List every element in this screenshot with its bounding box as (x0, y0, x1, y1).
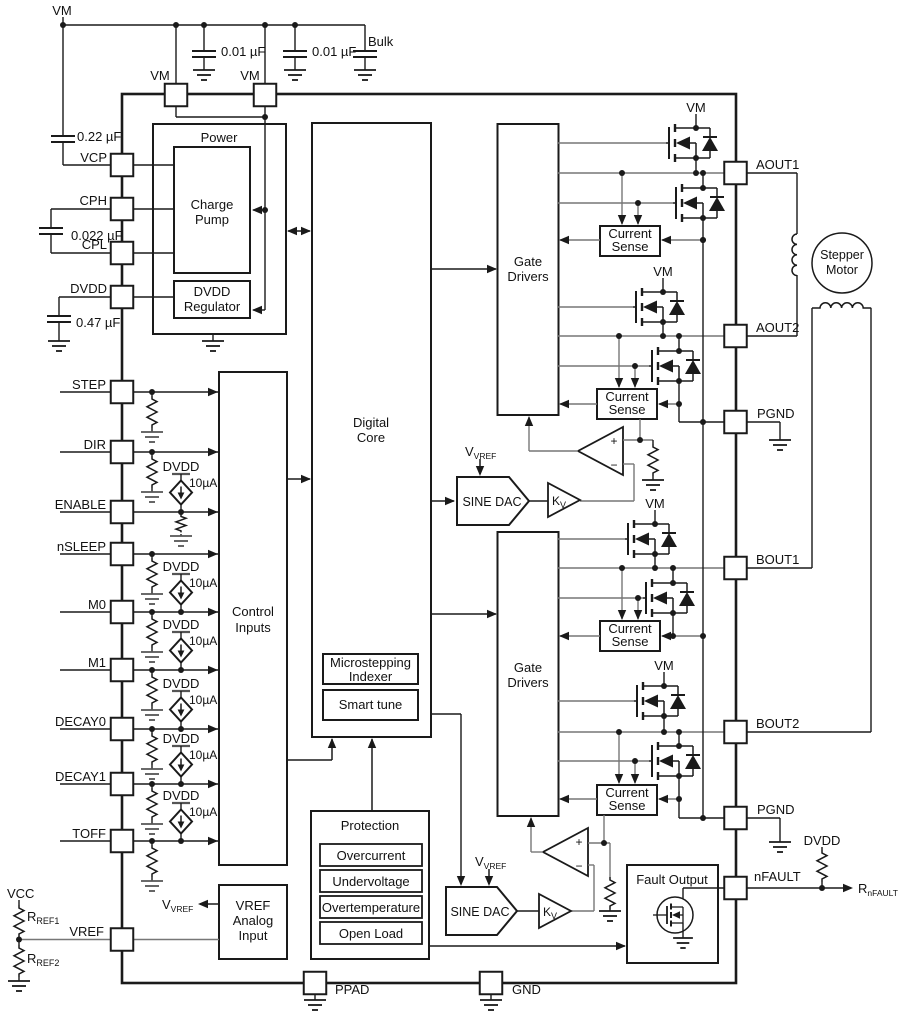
pin STEP (111, 381, 134, 404)
svg-text:Motor: Motor (826, 263, 858, 277)
junction divider tap (16, 937, 22, 943)
junction sense at low-side source B1 (670, 633, 676, 639)
svg-text:−: − (575, 859, 582, 873)
wire output sample down to current sense A1 (621, 173, 623, 224)
wire gate line high-side B2 (558, 700, 634, 702)
wire output net B2 (558, 731, 724, 733)
wire VCC stub (18, 900, 20, 905)
pin ENABLE (111, 501, 134, 524)
wire TOFF to Control Inputs (133, 840, 218, 842)
capacitor 0.022 uF (39, 228, 63, 234)
ground below GND pin (480, 1000, 502, 1010)
block Current Sense A1 (600, 226, 660, 256)
wire CPL to Charge Pump (133, 252, 174, 254)
svg-text:VREF: VREF (236, 898, 271, 913)
block Open Load (320, 922, 422, 944)
svg-text:Digital: Digital (353, 415, 389, 430)
stepper motor circle (812, 233, 872, 293)
svg-text:SINE DAC: SINE DAC (462, 495, 521, 509)
wire current sense B low to plus node (603, 815, 605, 843)
block DVDD Regulator (174, 281, 250, 318)
svg-text:SINE DAC: SINE DAC (450, 905, 509, 919)
svg-text:PGND: PGND (757, 406, 795, 421)
junction high-side at output A2 (660, 333, 666, 339)
pin DECAY1 (111, 773, 134, 796)
svg-text:GND: GND (512, 982, 541, 997)
svg-text:PGND: PGND (757, 802, 795, 817)
wire PGND sense column (702, 240, 704, 818)
current source 10uA into M0 (180, 574, 182, 581)
wire DECAY0 external stub (60, 728, 111, 730)
block Overtemperature (320, 896, 422, 918)
svg-text:0.22 µF: 0.22 µF (77, 129, 121, 144)
wire current sense output to gate drivers B2 (560, 798, 597, 800)
wire high-side source to output B2 (663, 716, 665, 732)
junction output sample B1 (619, 565, 625, 571)
pulldown resistor at DIR (151, 452, 153, 456)
device boundary (chip outline) (122, 94, 736, 983)
current source 10uA into TOFF (180, 803, 182, 810)
pin VCP (111, 154, 134, 177)
amplifier KV A (548, 483, 580, 517)
svg-text:Core: Core (357, 430, 385, 445)
wire high-side source to output B1 (654, 554, 656, 568)
wire low-side drain to output A2 (678, 336, 680, 351)
wire 0.47uF to ground (58, 322, 60, 341)
wire VM pin2 internal vertical (264, 106, 266, 310)
block Protection (311, 811, 429, 959)
wire output net A1 (558, 172, 724, 174)
wire GND pin to ground (490, 994, 492, 1000)
svg-text:CPH: CPH (80, 193, 107, 208)
capacitor 0.01 uF (C2) (283, 51, 307, 57)
wire DVDD left to cap (59, 296, 111, 298)
current source 10uA into DECAY1 (180, 746, 182, 753)
svg-text:10µA: 10µA (189, 805, 217, 819)
block Smart tune (323, 690, 418, 720)
wire CPL left (50, 234, 52, 253)
wire comparator B output to gate drivers (531, 851, 543, 853)
pin M0 (111, 601, 134, 624)
svg-text:Control: Control (232, 604, 274, 619)
svg-text:Sense: Sense (609, 402, 646, 417)
junction high-side at output B2 (661, 729, 667, 735)
svg-text:DVDD: DVDD (163, 459, 200, 474)
block Current Sense B1 (600, 621, 660, 651)
pin PPAD (304, 972, 327, 995)
svg-text:0.47 µF: 0.47 µF (76, 315, 120, 330)
capacitor 0.01 uF (C1) (192, 51, 216, 57)
pin VM 2 (254, 84, 277, 107)
wire DECAY1 external stub (60, 783, 111, 785)
svg-text:BOUT2: BOUT2 (756, 716, 799, 731)
block Current Sense A2 (597, 389, 657, 419)
ground below bulk cap (354, 70, 376, 80)
svg-text:10µA: 10µA (189, 576, 217, 590)
svg-text:VM: VM (52, 3, 72, 18)
sense resistor B (609, 843, 611, 877)
junction DECAY0 at current source (178, 726, 184, 732)
DVDD rail bar above ENABLE current source (172, 473, 190, 475)
DVDD rail bar above TOFF current source (172, 802, 190, 804)
ground at PGND A (769, 440, 791, 450)
pin BOUT1 (724, 557, 747, 580)
ground below TOFF pulldown (141, 881, 163, 891)
junction VM rail at C1 (201, 22, 207, 28)
svg-text:M1: M1 (88, 655, 106, 670)
svg-text:PPAD: PPAD (335, 982, 369, 997)
DVDD rail bar above DECAY1 current source (172, 745, 190, 747)
transistor low-side FET B2 (649, 760, 652, 762)
svg-text:Protection: Protection (341, 818, 400, 833)
comparator B (543, 828, 588, 876)
transistor fault output FET (653, 914, 667, 916)
block Undervoltage (320, 870, 422, 892)
junction sense at low-side source A1 (700, 237, 706, 243)
svg-text:Sense: Sense (612, 634, 649, 649)
resistor RREF2 (14, 945, 24, 977)
pulldown resistor at M1 (151, 670, 153, 674)
junction sense column at PGND B (700, 815, 706, 821)
wire CPH left (51, 208, 111, 210)
junction M1 at current source (178, 667, 184, 673)
current source 10uA into M1 (180, 632, 182, 639)
pin M1 (111, 659, 134, 682)
wire VREF pin to block (133, 939, 219, 941)
SINE DAC A (457, 477, 529, 525)
svg-text:M0: M0 (88, 597, 106, 612)
junction nSLEEP at pulldown (149, 551, 155, 557)
pin PGND A (724, 411, 747, 434)
wire DECAY0 to Control Inputs (133, 728, 218, 730)
svg-text:nFAULT: nFAULT (754, 869, 801, 884)
block Gate Drivers B (498, 532, 559, 816)
junction comparator B plus node (601, 840, 607, 846)
block Overcurrent (320, 844, 422, 866)
junction sense at low-side source B2 (676, 796, 682, 802)
wire gate line low-side A2 (558, 365, 649, 367)
transistor high-side FET B2 (634, 700, 637, 702)
pin DECAY0 (111, 718, 134, 741)
svg-text:DVDD: DVDD (70, 281, 107, 296)
arrow Power to Digital Core (bidir) (288, 230, 310, 232)
wire gate line low-side B2 (558, 760, 649, 762)
junction output sample A2 (616, 333, 622, 339)
wire DIR to Control Inputs (133, 451, 218, 453)
DVDD rail bar above M1 current source (172, 631, 190, 633)
wire VVREF output arrow (200, 903, 219, 905)
svg-text:Charge: Charge (191, 197, 234, 212)
block Power (153, 124, 286, 334)
wire VM stub A1 (695, 114, 697, 128)
svg-text:nSLEEP: nSLEEP (57, 539, 106, 554)
wire VM rail to cap C2 (294, 25, 296, 51)
wire VM top rail (63, 24, 365, 26)
wire AOUT1 to winding A (747, 172, 797, 174)
svg-text:Stepper: Stepper (820, 248, 864, 262)
pin DVDD (111, 286, 134, 309)
wire M1 to Control Inputs (133, 669, 218, 671)
ground below DECAY1 pulldown (141, 824, 163, 834)
wire gate line high-side B1 (558, 538, 625, 540)
wire PGND A to ground (747, 421, 780, 423)
junction low-side at output A2 (676, 333, 682, 339)
wire divider to VREF pin (18, 937, 20, 945)
pulldown resistor at TOFF (151, 841, 153, 845)
wire ENABLE external stub (60, 511, 111, 513)
pin GND (480, 972, 503, 995)
svg-text:Gate: Gate (514, 660, 542, 675)
svg-text:DVDD: DVDD (163, 559, 200, 574)
wire VVREF into SINE DAC B (488, 869, 490, 884)
transistor low-side FET A2 (649, 365, 652, 367)
wire high-side source to output A2 (662, 322, 664, 336)
junction sense column at PGND A (700, 419, 706, 425)
pulldown resistor at nSLEEP (151, 554, 153, 558)
wire sense line into current sense A2 (659, 403, 679, 405)
wire low-side source down A1 (702, 218, 704, 240)
wire output sample down to current sense B1 (621, 568, 623, 619)
ground below DECAY0 pulldown (141, 769, 163, 779)
wire PPAD to ground (314, 994, 316, 1000)
junction low-side at output B1 (670, 565, 676, 571)
wire C2 to ground (294, 57, 296, 70)
svg-text:0.01 µF: 0.01 µF (312, 44, 356, 59)
pin VM 1 (165, 84, 188, 107)
wire C1 to ground (203, 57, 205, 70)
svg-text:VCC: VCC (7, 886, 34, 901)
block Charge Pump (174, 147, 250, 273)
winding A (phase A coil) (792, 234, 797, 276)
svg-text:Undervoltage: Undervoltage (332, 874, 409, 889)
svg-text:DECAY0: DECAY0 (55, 714, 106, 729)
svg-text:DVDD: DVDD (163, 788, 200, 803)
transistor high-side FET B1 (625, 538, 628, 540)
ground at PGND B (769, 842, 791, 852)
wire bulk cap to ground (364, 57, 366, 70)
block VREF Analog Input (219, 885, 287, 959)
svg-text:Input: Input (239, 928, 268, 943)
svg-text:Analog: Analog (233, 913, 273, 928)
svg-text:Power: Power (201, 130, 239, 145)
wire M1 external stub (60, 669, 111, 671)
wire current sense output to gate drivers A2 (560, 403, 597, 405)
svg-text:ENABLE: ENABLE (55, 497, 107, 512)
pin CPH (111, 198, 134, 221)
pulldown resistor at DECAY1 (151, 784, 153, 788)
svg-text:DECAY1: DECAY1 (55, 769, 106, 784)
wire output net B1 (558, 567, 724, 569)
svg-text:Overtemperature: Overtemperature (322, 900, 420, 915)
svg-text:VM: VM (686, 100, 706, 115)
junction VM internal (262, 114, 268, 120)
svg-text:Drivers: Drivers (507, 675, 549, 690)
junction DIR at pulldown (149, 449, 155, 455)
pin DIR (111, 441, 134, 464)
wire low-side drain to output B1 (672, 568, 674, 583)
svg-text:10µA: 10µA (189, 476, 217, 490)
wire low-side drain to output A1 (702, 173, 704, 188)
svg-text:Gate: Gate (514, 254, 542, 269)
svg-text:STEP: STEP (72, 377, 106, 392)
wire VCP to Charge Pump (133, 164, 174, 166)
junction TOFF at pulldown (149, 838, 155, 844)
svg-text:+: + (610, 434, 617, 448)
junction low-side at output B2 (676, 729, 682, 735)
wire VM stub B2 (663, 672, 665, 686)
wire RREF2 to ground (18, 977, 20, 981)
wire Digital Core to SINE DAC A (431, 500, 454, 502)
wire VM stub B1 (654, 510, 656, 524)
wire VVREF into SINE DAC A (479, 459, 481, 474)
junction VM at charge pump branch (262, 207, 268, 213)
junction high-side at output A1 (693, 170, 699, 176)
junction M0 at pulldown (149, 609, 155, 615)
block Microstepping Indexer (323, 654, 418, 684)
wire VM stub A2 (662, 278, 664, 292)
pulldown resistor at DECAY0 (151, 729, 153, 733)
pin nFAULT (724, 877, 747, 900)
ground below sense resistor B (599, 911, 621, 921)
fault FET circle (657, 897, 693, 933)
ground below RREF2 (8, 981, 30, 991)
wire VM to DVDD Regulator (253, 309, 265, 311)
junction DECAY1 at pulldown (149, 781, 155, 787)
svg-text:Sense: Sense (609, 798, 646, 813)
pin CPL (111, 242, 134, 265)
svg-text:Regulator: Regulator (184, 299, 241, 314)
wire gate sample down to current sense B2 (634, 761, 636, 783)
svg-text:0.01 µF: 0.01 µF (221, 44, 265, 59)
wire winding A to AOUT2 (796, 275, 798, 336)
svg-text:Indexer: Indexer (349, 669, 393, 684)
wire gate line high-side A2 (558, 306, 633, 308)
wire SINE DAC B to KV B (517, 910, 539, 912)
ground below nSLEEP pulldown (141, 594, 163, 604)
svg-text:VREF: VREF (69, 924, 104, 939)
ground below 0.47uF (48, 341, 70, 351)
junction output sample A1 (619, 170, 625, 176)
junction M0 at current source (178, 609, 184, 615)
svg-text:VM: VM (150, 68, 170, 83)
svg-text:DVDD: DVDD (163, 731, 200, 746)
wire winding B to BOUT2 (870, 308, 872, 732)
pulldown resistor at ENABLE (180, 512, 182, 515)
resistor RREF1 (14, 905, 24, 937)
pin nSLEEP (111, 543, 134, 566)
junction high-side at output B1 (652, 565, 658, 571)
wire output sample down to current sense A2 (618, 336, 620, 387)
wire comparator A output to gate drivers (529, 450, 578, 452)
wire Control Inputs up to Digital Core bottom (287, 759, 332, 761)
junction VM rail at pin2 branch (262, 22, 268, 28)
wire A2 source to PGND line (678, 404, 680, 422)
junction DECAY0 at pulldown (149, 726, 155, 732)
svg-text:TOFF: TOFF (72, 826, 106, 841)
transistor low-side FET B1 (643, 597, 646, 599)
wire 0.22uF cap to VCP pin (62, 142, 64, 165)
wire high-side source to output A1 (695, 158, 697, 173)
junction TOFF at current source (178, 838, 184, 844)
svg-text:CPL: CPL (82, 237, 107, 252)
current source 10uA into DECAY0 (180, 691, 182, 698)
junction M1 at pulldown (149, 667, 155, 673)
wire gate line low-side A1 (558, 202, 673, 204)
wire VM to Charge Pump (253, 209, 265, 211)
wire CPH to Charge Pump (133, 208, 174, 210)
wire STEP to Control Inputs (133, 391, 218, 393)
wire low-side drain to output B2 (678, 732, 680, 746)
DVDD rail bar above M0 current source (172, 573, 190, 575)
wire current sense A low to plus node (639, 419, 641, 440)
capacitor 0.47 uF (47, 316, 71, 322)
wire comparator B minus loop (588, 864, 594, 866)
wire sense line into current sense A1 (662, 239, 703, 241)
svg-text:Bulk: Bulk (368, 34, 394, 49)
svg-text:DVDD: DVDD (194, 284, 231, 299)
svg-text:VCP: VCP (80, 150, 107, 165)
ground below PPAD (304, 1000, 326, 1010)
wire Smart tune to SINE DAC B (431, 713, 461, 715)
svg-text:Fault Output: Fault Output (636, 872, 708, 887)
pulldown resistor at STEP (151, 392, 153, 396)
wire sense line into current sense B1 (662, 635, 703, 637)
junction VM rail at C2 (292, 22, 298, 28)
svg-text:VM: VM (645, 496, 665, 511)
pin PGND B (724, 807, 747, 830)
svg-text:VM: VM (653, 264, 673, 279)
svg-text:+: + (575, 835, 582, 849)
wire STEP external stub (60, 391, 111, 393)
wire Protection up to Digital Core bottom (371, 739, 373, 811)
junction STEP at pulldown (149, 389, 155, 395)
junction nFAULT pullup (819, 885, 825, 891)
junction VM rail left (60, 22, 66, 28)
ground below C2 (284, 70, 306, 80)
pulldown resistor at M0 (151, 612, 153, 616)
wire output net A2 (558, 335, 724, 337)
pullup resistor DVDD (821, 847, 823, 850)
transistor high-side FET A1 (666, 142, 669, 144)
wire VM rail down to 0.22uF cap (62, 25, 64, 136)
ground below Power block (212, 334, 214, 341)
block Fault Output (627, 865, 718, 963)
wire Digital Core to Gate Drivers A (431, 268, 496, 270)
wire B2 source to PGND line (678, 799, 680, 818)
transistor low-side FET A1 (673, 202, 676, 204)
wire DVDD to regulator (133, 296, 174, 298)
svg-text:10µA: 10µA (189, 634, 217, 648)
ground below sense resistor A (642, 480, 664, 490)
svg-text:Sense: Sense (612, 239, 649, 254)
ground below M0 pulldown (141, 652, 163, 662)
capacitor Bulk (353, 51, 377, 57)
capacitor 0.22 uF (51, 136, 75, 142)
block Current Sense B2 (597, 785, 657, 815)
junction VM rail at pin1 branch (173, 22, 179, 28)
svg-text:10µA: 10µA (189, 748, 217, 762)
wire nSLEEP external stub (60, 553, 111, 555)
block Control Inputs (219, 372, 287, 865)
wire gate line low-side B1 (558, 597, 643, 599)
junction sense column at A1 (700, 237, 706, 243)
wire gate line high-side A1 (558, 142, 666, 144)
winding B (phase B coil) (812, 303, 871, 308)
wire Digital Core to Gate Drivers B (431, 613, 496, 615)
wire nFAULT to RnFAULT (747, 887, 851, 889)
svg-text:Overcurrent: Overcurrent (337, 848, 406, 863)
pin TOFF (111, 830, 134, 853)
